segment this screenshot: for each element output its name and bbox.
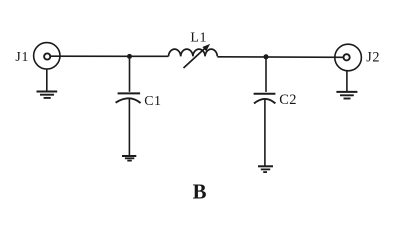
svg-text:J2: J2 bbox=[366, 50, 380, 66]
svg-text:L1: L1 bbox=[190, 30, 207, 45]
svg-text:C2: C2 bbox=[279, 92, 297, 108]
svg-text:B: B bbox=[193, 181, 207, 204]
svg-text:J1: J1 bbox=[15, 49, 29, 64]
svg-text:C1: C1 bbox=[144, 94, 161, 109]
